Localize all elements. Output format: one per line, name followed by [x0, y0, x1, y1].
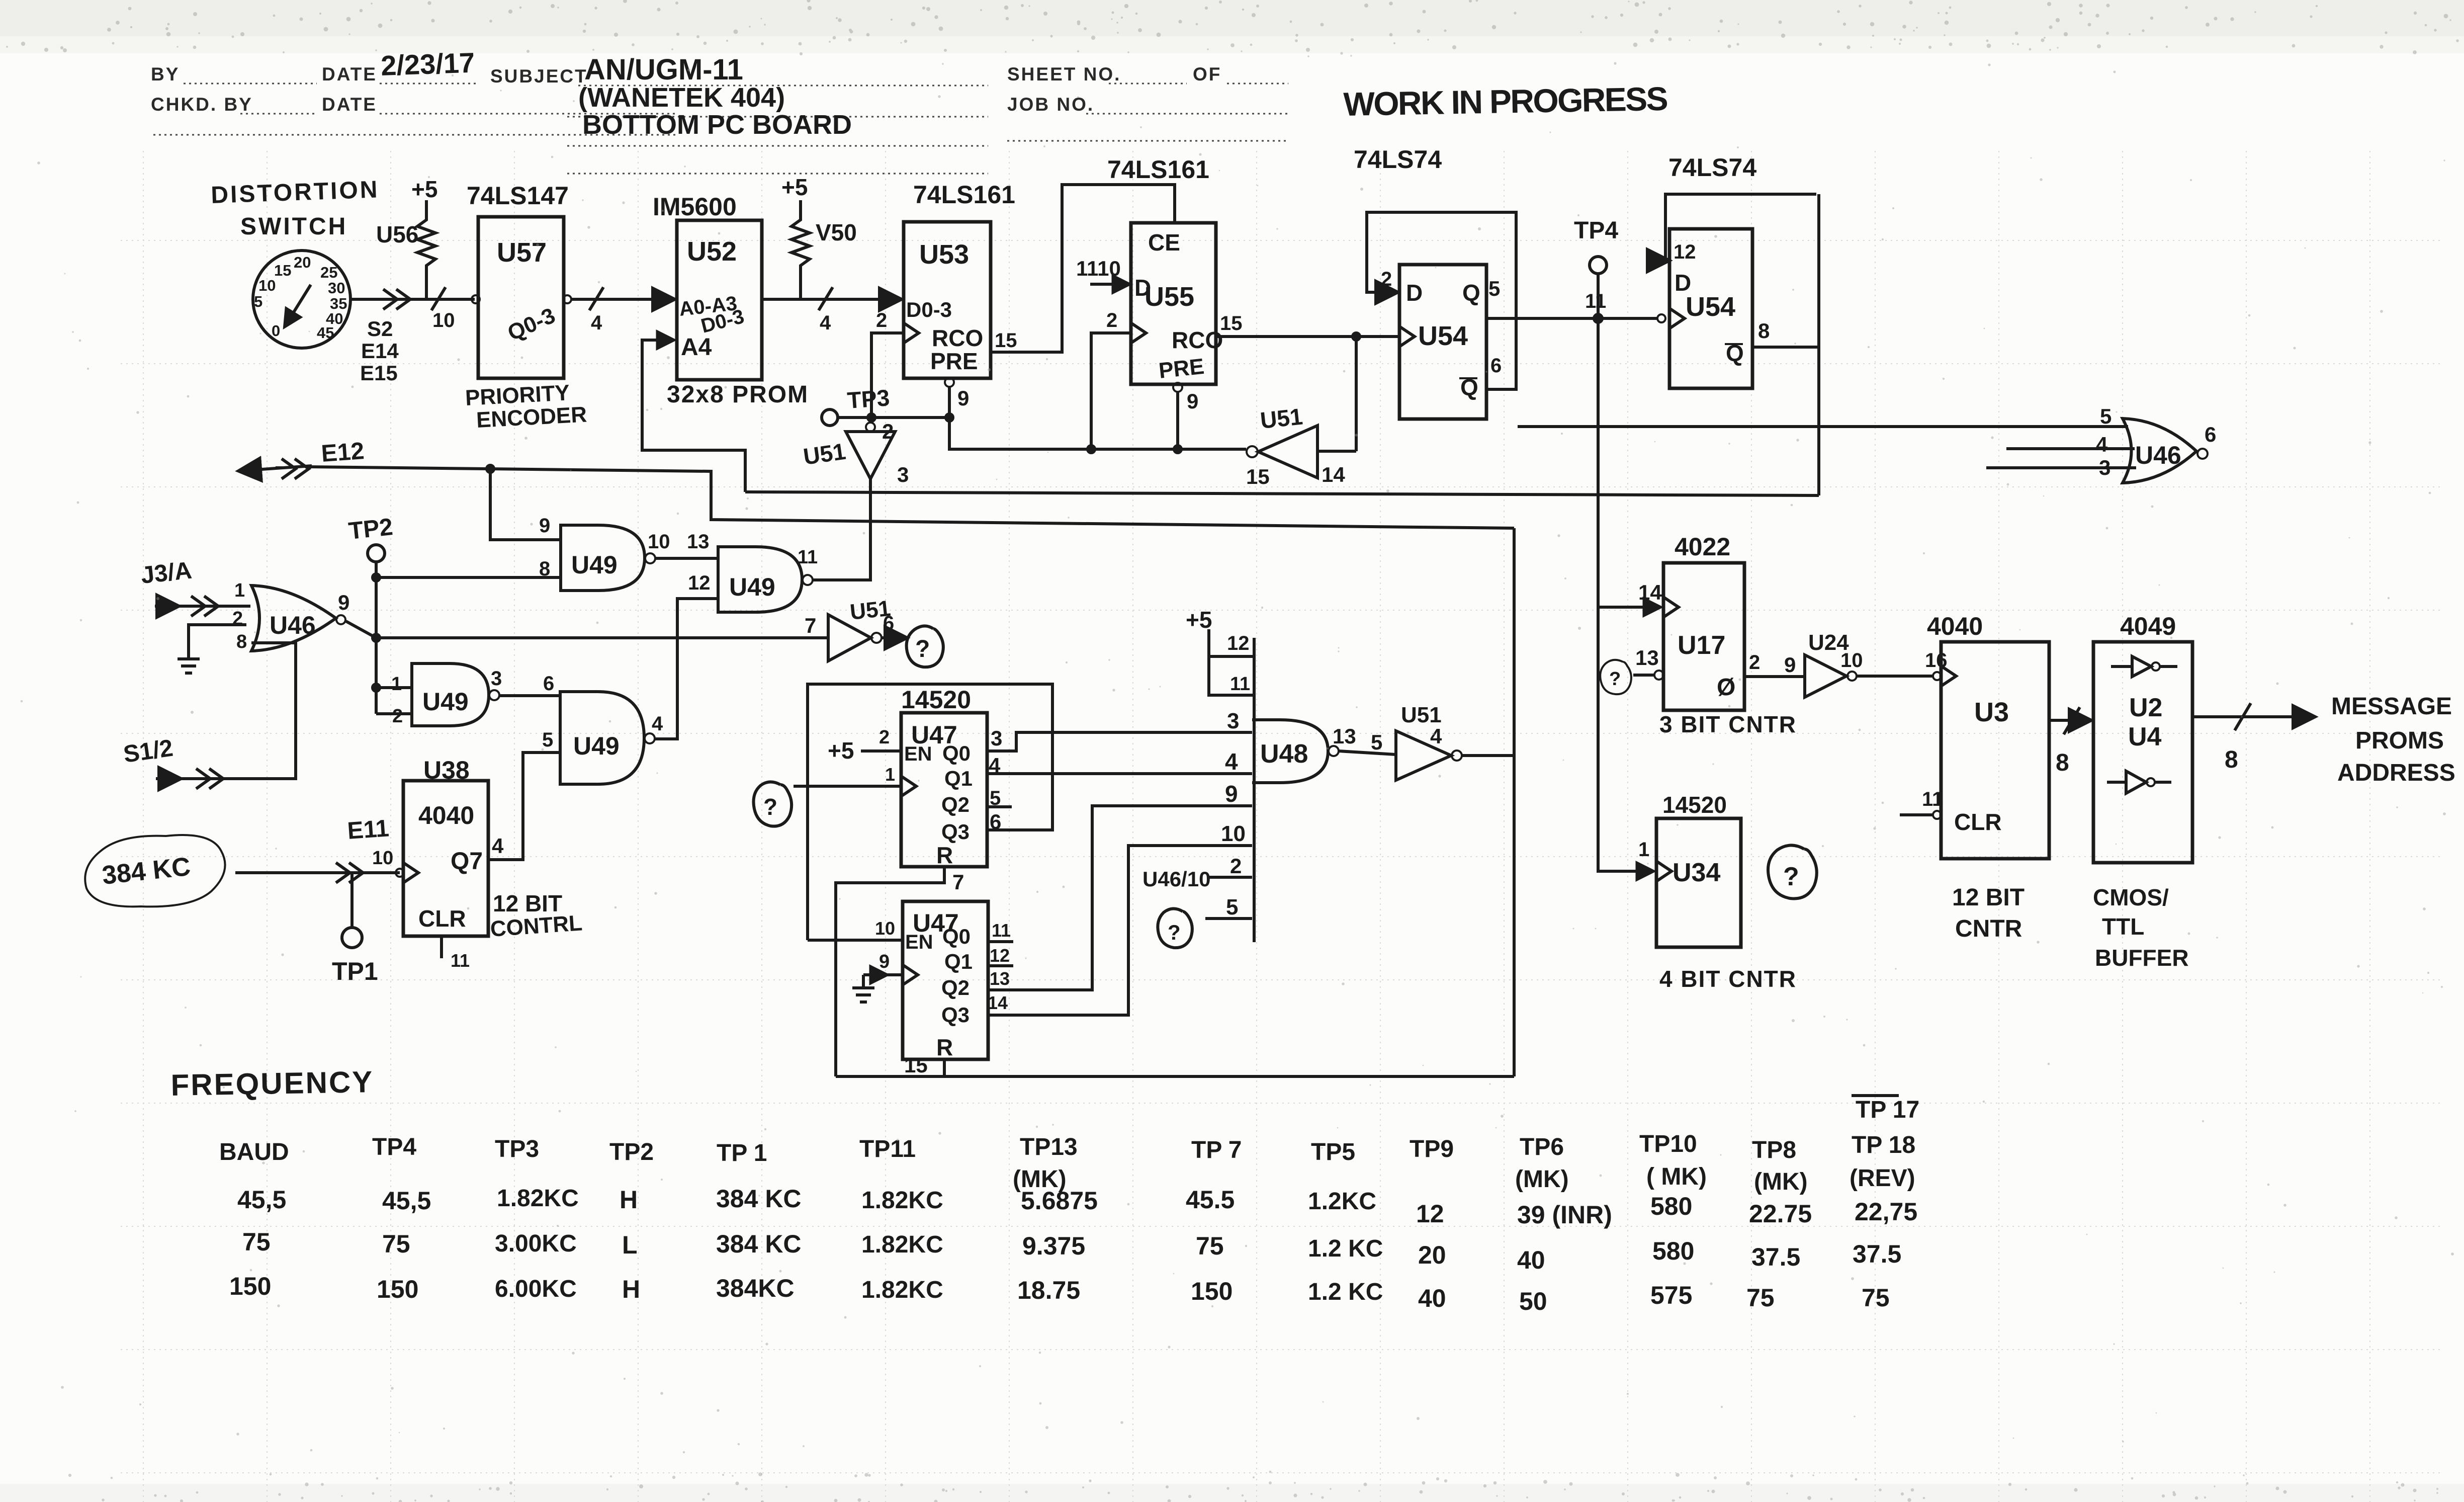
svg-text:12: 12 — [1227, 632, 1250, 654]
svg-text:U49: U49 — [571, 551, 618, 579]
svg-text:U52: U52 — [687, 236, 737, 267]
U38 CLR pin11 stub — [442, 936, 470, 971]
svg-text:(REV): (REV) — [1850, 1165, 1915, 1192]
svg-text:75: 75 — [1862, 1284, 1890, 1312]
svg-text:5: 5 — [1488, 277, 1500, 300]
nand U49d — [542, 692, 663, 784]
U47b Q0 pin11 stub — [988, 940, 1013, 943]
svg-text:+5: +5 — [1186, 607, 1212, 633]
svg-text:3: 3 — [897, 463, 909, 486]
wire big enable rectangle — [808, 684, 1052, 940]
svg-text:384 KC: 384 KC — [716, 1185, 802, 1213]
svg-text:Q: Q — [1462, 280, 1480, 306]
svg-text:9: 9 — [1187, 389, 1198, 413]
wire U3 to U2/U4 bus — [2049, 707, 2089, 734]
wire U47b Q2 pin13 to U48 pin9 — [988, 806, 1252, 990]
svg-text:14520: 14520 — [1662, 792, 1727, 818]
resistor U56 — [376, 200, 435, 299]
wire U52 to U53 — [762, 287, 900, 310]
wire U47a Q1 pin4 to U48 — [987, 772, 1252, 775]
svg-text:U55: U55 — [1145, 282, 1194, 312]
svg-text:CMOS/: CMOS/ — [2093, 884, 2169, 910]
svg-text:PRE: PRE — [1158, 354, 1205, 383]
buffer U51c — [828, 596, 905, 661]
svg-text:L: L — [622, 1231, 638, 1259]
svg-text:45.5: 45.5 — [1186, 1186, 1235, 1214]
U17 pin13 input with query — [1600, 646, 1663, 694]
wire 1110 into U55 D — [1076, 257, 1128, 284]
svg-text:U17: U17 — [1678, 631, 1725, 660]
svg-text:CLR: CLR — [1954, 809, 2002, 835]
svg-text:5: 5 — [1371, 730, 1382, 754]
svg-text:U48: U48 — [1260, 739, 1308, 769]
svg-text:TP5: TP5 — [1311, 1139, 1355, 1165]
svg-text:12: 12 — [1416, 1200, 1444, 1228]
svg-text:150: 150 — [377, 1275, 418, 1303]
svg-text:74LS147: 74LS147 — [467, 182, 569, 210]
node S1/2 input arrow to U46a pin8 — [122, 631, 296, 789]
svg-text:40: 40 — [1517, 1246, 1545, 1274]
svg-text:37.5: 37.5 — [1751, 1243, 1800, 1271]
svg-text:10: 10 — [1221, 821, 1246, 846]
svg-text:150: 150 — [1191, 1277, 1233, 1305]
svg-text:12: 12 — [990, 945, 1010, 966]
svg-text:6: 6 — [1490, 355, 1502, 377]
svg-text:3: 3 — [1227, 709, 1239, 733]
wire: switch to U57 — [350, 287, 475, 310]
svg-text:TP1: TP1 — [332, 957, 378, 985]
svg-text:U54: U54 — [1418, 321, 1468, 351]
wire into U46b pin4 — [2006, 447, 2135, 450]
svg-text:+5: +5 — [828, 737, 854, 764]
svg-text:Q3: Q3 — [941, 1003, 970, 1027]
and-gate U48 — [1252, 720, 1356, 783]
svg-text:9: 9 — [539, 515, 550, 537]
+5 into U47a EN — [828, 727, 901, 785]
distortion switch label — [211, 176, 380, 240]
svg-text:10: 10 — [372, 848, 393, 869]
svg-text:8: 8 — [236, 631, 247, 652]
svg-text:1: 1 — [1638, 839, 1649, 861]
svg-text:13: 13 — [687, 531, 710, 553]
svg-text:4040: 4040 — [418, 801, 474, 829]
svg-text:575: 575 — [1650, 1281, 1692, 1309]
svg-text:11: 11 — [992, 920, 1011, 941]
svg-text:TP4: TP4 — [1574, 217, 1618, 244]
svg-text:U49: U49 — [729, 573, 775, 601]
svg-text:10: 10 — [432, 309, 455, 331]
svg-text:SWITCH: SWITCH — [240, 213, 347, 240]
svg-text:13: 13 — [990, 968, 1010, 989]
svg-text:?: ? — [1168, 921, 1181, 944]
svg-text:15: 15 — [274, 262, 291, 279]
U47b Q1 pin12 stub — [988, 964, 1013, 967]
wire TP4 vertical down to U17 and U34 — [1598, 274, 1659, 871]
IC U47b 14520 — [903, 901, 988, 1060]
svg-text:2/23/17: 2/23/17 — [380, 47, 475, 81]
svg-text:4040: 4040 — [1927, 612, 1983, 640]
svg-text:BOTTOM PC BOARD: BOTTOM PC BOARD — [582, 110, 852, 140]
svg-text:3: 3 — [491, 667, 502, 690]
svg-text:3 BIT CNTR: 3 BIT CNTR — [1659, 711, 1797, 737]
wire U2/U4 output bus — [2192, 703, 2313, 730]
U53 PRE pin9 — [945, 378, 969, 416]
U3 CLR pin11 stub — [1900, 788, 1943, 819]
svg-text:(WANETEK 404): (WANETEK 404) — [578, 82, 785, 113]
svg-text:11: 11 — [451, 950, 470, 971]
svg-text:OF: OF — [1193, 64, 1221, 85]
wire TP2 net into U49c pins — [376, 688, 412, 714]
wire U48 out to U51d — [1339, 751, 1396, 755]
svg-text:22.75: 22.75 — [1749, 1200, 1812, 1228]
wire A4 long feedback run — [745, 492, 1819, 495]
IC U53 74LS161 — [904, 181, 1015, 378]
svg-text:8: 8 — [1758, 319, 1770, 343]
svg-text:14: 14 — [1638, 580, 1662, 604]
svg-text:0: 0 — [272, 322, 280, 340]
wire U53 RCO to U55 CE — [991, 185, 1175, 352]
wire query to U47a clock — [794, 785, 900, 788]
svg-text:14520: 14520 — [901, 686, 971, 714]
wire main feedback vertical — [1513, 528, 1516, 1076]
svg-text:BAUD: BAUD — [219, 1139, 289, 1165]
svg-text:14: 14 — [1322, 463, 1345, 486]
svg-text:4: 4 — [1430, 724, 1442, 748]
svg-text:TP10: TP10 — [1639, 1131, 1697, 1157]
svg-text:1.82KC: 1.82KC — [861, 1277, 943, 1303]
svg-text:6: 6 — [2205, 423, 2216, 446]
svg-text:5: 5 — [542, 729, 553, 751]
svg-text:Q0: Q0 — [942, 741, 971, 765]
svg-text:2: 2 — [876, 309, 887, 331]
svg-text:75: 75 — [1746, 1284, 1775, 1312]
svg-text:Q1: Q1 — [944, 950, 973, 973]
svg-text:4: 4 — [820, 312, 831, 334]
svg-text:?: ? — [915, 636, 930, 662]
svg-text:1110: 1110 — [1076, 257, 1121, 280]
svg-text:V50: V50 — [816, 219, 857, 245]
svg-text:1.2 KC: 1.2 KC — [1308, 1279, 1383, 1305]
wire U55 clock pin2 — [1091, 333, 1130, 449]
U55 PRE pin9 — [1173, 383, 1198, 449]
svg-text:9: 9 — [957, 386, 969, 410]
svg-text:TP2: TP2 — [609, 1139, 654, 1165]
svg-text:U2: U2 — [2129, 693, 2162, 722]
svg-text:Ø: Ø — [1717, 674, 1735, 701]
svg-text:580: 580 — [1652, 1237, 1694, 1265]
svg-text:75: 75 — [382, 1230, 410, 1258]
svg-text:2: 2 — [1230, 854, 1242, 878]
svg-text:MESSAGE: MESSAGE — [2331, 693, 2452, 720]
svg-text:1: 1 — [391, 674, 402, 695]
svg-text:CNTR: CNTR — [1955, 915, 2022, 942]
IC U2/U4 4049 — [2093, 612, 2192, 863]
wire U46a output long to U51c — [346, 621, 827, 638]
svg-text:1: 1 — [234, 580, 245, 601]
svg-text:U34: U34 — [1673, 858, 1720, 887]
U47a Q2 pin5 stub — [987, 805, 1012, 808]
svg-text:4022: 4022 — [1675, 533, 1730, 561]
wire U47b R pin15 to bottom loop — [836, 1059, 1514, 1076]
svg-text:10: 10 — [258, 277, 276, 294]
svg-text:U51: U51 — [1401, 703, 1442, 727]
svg-text:U49: U49 — [573, 732, 620, 760]
wire U47b Q3 pin14 to U48 pin10 — [988, 846, 1252, 1015]
svg-text:37.5: 37.5 — [1853, 1240, 1901, 1268]
resistor V50 — [791, 200, 857, 298]
svg-text:SUBJECT: SUBJECT — [490, 66, 588, 87]
svg-text:5: 5 — [990, 787, 1001, 809]
svg-text:74LS161: 74LS161 — [1107, 155, 1209, 184]
wire U54a Q to U54b clock — [1486, 314, 1665, 322]
svg-text:TTL: TTL — [2102, 913, 2144, 940]
wire U24 to U3 clock — [1857, 672, 1941, 680]
node query circle near U34 — [1768, 845, 1817, 898]
svg-text:Q1: Q1 — [944, 767, 973, 790]
wire U54b loop pin12 D — [1665, 194, 1816, 261]
IC U47a 14520 — [901, 686, 987, 868]
svg-text:11: 11 — [798, 547, 818, 568]
svg-text:45,5: 45,5 — [237, 1186, 286, 1214]
svg-text:74LS74: 74LS74 — [1668, 153, 1756, 182]
svg-text:150: 150 — [229, 1272, 271, 1300]
svg-text:U57: U57 — [497, 237, 547, 268]
node query circle before U47a clock — [754, 782, 792, 826]
wire U38 Q7 to U49d pin5 — [488, 753, 560, 860]
svg-text:TP 7: TP 7 — [1191, 1137, 1242, 1163]
IC U3 4040 — [1927, 612, 2049, 859]
svg-text:H: H — [622, 1275, 640, 1303]
svg-text:S2: S2 — [367, 317, 393, 341]
IC U52 IM5600 — [653, 193, 809, 408]
test point TP3 — [822, 384, 891, 426]
svg-text:25: 25 — [320, 264, 337, 281]
svg-text:1.2KC: 1.2KC — [1308, 1188, 1376, 1215]
svg-text:AN/UGM-11: AN/UGM-11 — [584, 53, 743, 86]
svg-text:22,75: 22,75 — [1855, 1198, 1917, 1226]
svg-text:Q7: Q7 — [451, 848, 483, 875]
wire U55 RCO to U54 clock — [1216, 333, 1398, 451]
svg-text:14: 14 — [988, 992, 1008, 1013]
svg-text:5: 5 — [1226, 895, 1238, 920]
svg-text:( MK): ( MK) — [1646, 1163, 1707, 1190]
node labels S2 E14 E15 — [360, 317, 399, 385]
flip-flop U54a 74LS74 — [1354, 145, 1486, 419]
svg-text:TP3: TP3 — [495, 1136, 539, 1162]
svg-text:U49: U49 — [422, 688, 469, 716]
svg-text:9: 9 — [1784, 653, 1796, 677]
svg-text:384KC: 384KC — [716, 1274, 795, 1302]
svg-text:CLR: CLR — [418, 905, 466, 932]
svg-text:U3: U3 — [1974, 697, 2009, 727]
svg-text:TP3: TP3 — [846, 384, 891, 413]
svg-text:E12: E12 — [320, 438, 365, 467]
svg-text:U53: U53 — [919, 239, 969, 270]
svg-text:BUFFER: BUFFER — [2095, 945, 2189, 971]
svg-text:H: H — [620, 1186, 638, 1214]
svg-text:9: 9 — [338, 591, 349, 614]
svg-text:J3/A: J3/A — [140, 557, 193, 589]
svg-text:13: 13 — [1333, 724, 1356, 748]
svg-text:6: 6 — [543, 673, 554, 695]
svg-text:?: ? — [1783, 862, 1799, 891]
svg-text:TP8: TP8 — [1752, 1137, 1796, 1163]
node E12 with arrow — [240, 438, 365, 479]
svg-text:U4: U4 — [2128, 722, 2162, 752]
svg-text:9: 9 — [1225, 781, 1238, 807]
svg-text:Q3: Q3 — [941, 820, 970, 844]
IC U17 4022 — [1638, 533, 1744, 710]
svg-text:SHEET NO.: SHEET NO. — [1007, 64, 1121, 85]
buffer U51d — [1396, 703, 1462, 780]
svg-text:1.82KC: 1.82KC — [861, 1231, 943, 1258]
svg-text:TP6: TP6 — [1520, 1134, 1564, 1160]
svg-text:5: 5 — [254, 293, 262, 310]
svg-text:45,5: 45,5 — [382, 1187, 431, 1215]
svg-text:(MK): (MK) — [1754, 1169, 1808, 1195]
IC U38 4040 — [403, 756, 488, 936]
node E11 arrow into U38 — [235, 815, 404, 883]
svg-text:WORK IN PROGRESS: WORK IN PROGRESS — [1343, 80, 1669, 123]
svg-text:12 BIT: 12 BIT — [1952, 884, 2025, 911]
wire TP2 vertical — [373, 562, 380, 714]
svg-text:4 BIT CNTR: 4 BIT CNTR — [1659, 966, 1797, 992]
ground into U47b clock pin9 — [852, 951, 902, 1002]
wire U47a Q3 pin6 up to big rect — [987, 817, 1052, 830]
test point TP1 — [332, 873, 378, 985]
svg-text:1.82KC: 1.82KC — [861, 1187, 943, 1214]
inverter U51b (points left) — [1246, 403, 1356, 488]
svg-text:TP2: TP2 — [347, 514, 394, 545]
svg-text:3.00KC: 3.00KC — [495, 1230, 577, 1257]
svg-text:1.2 KC: 1.2 KC — [1308, 1235, 1383, 1262]
wire U51d out to feedback vertical — [1462, 754, 1514, 757]
svg-text:3: 3 — [991, 726, 1002, 750]
svg-text:EN: EN — [904, 743, 932, 765]
svg-text:8: 8 — [2225, 746, 2238, 773]
svg-text:15: 15 — [1220, 312, 1243, 335]
svg-text:R: R — [936, 1034, 953, 1060]
svg-text:TP4: TP4 — [372, 1134, 416, 1160]
wire TP3 net — [838, 414, 1246, 453]
svg-text:75: 75 — [1196, 1232, 1224, 1260]
svg-text:15: 15 — [1246, 465, 1270, 488]
svg-text:+5: +5 — [781, 174, 808, 200]
svg-text:D0-3: D0-3 — [906, 298, 952, 321]
node MESSAGE PROMS ADDRESS — [2331, 693, 2455, 786]
svg-text:7: 7 — [805, 614, 816, 637]
svg-text:?: ? — [763, 794, 777, 820]
wire U57 to U52 — [563, 287, 673, 310]
svg-text:15: 15 — [995, 329, 1017, 352]
node query circle near U48 pin5 — [1158, 908, 1192, 948]
svg-text:9: 9 — [879, 951, 890, 972]
svg-text:2: 2 — [1749, 651, 1760, 674]
svg-text:RCO: RCO — [1172, 327, 1223, 353]
svg-text:4: 4 — [591, 312, 602, 334]
wire U54a feedback loop Qbar to D — [1367, 212, 1516, 389]
wire TP2 to U49a pin8 — [376, 576, 561, 579]
svg-text:U46: U46 — [270, 611, 316, 639]
svg-text:9.375: 9.375 — [1022, 1232, 1085, 1260]
svg-text:11: 11 — [1230, 674, 1250, 695]
svg-text:BY: BY — [151, 64, 180, 85]
svg-text:R: R — [936, 842, 953, 868]
wire U49d out up to U49b pin12 — [655, 599, 718, 739]
svg-text:11: 11 — [1585, 290, 1606, 312]
svg-text:4049: 4049 — [2120, 612, 2176, 640]
wire U49c out to U49d pin6 — [499, 694, 560, 697]
svg-text:PROMS: PROMS — [2355, 727, 2444, 754]
svg-text:TP 18: TP 18 — [1852, 1132, 1915, 1158]
svg-text:10: 10 — [648, 531, 670, 553]
svg-text:50: 50 — [1519, 1287, 1547, 1315]
svg-text:74LS74: 74LS74 — [1354, 145, 1442, 174]
wire U49a out to U49b pin13 — [655, 557, 718, 560]
wire into U46b pin5 — [1518, 425, 2128, 428]
inverter U51a (points down) — [802, 420, 909, 579]
svg-text:TP13: TP13 — [1020, 1134, 1078, 1160]
svg-text:A4: A4 — [681, 334, 712, 361]
IC U55 74LS161 — [1107, 155, 1223, 384]
svg-text:5.6875: 5.6875 — [1021, 1187, 1098, 1215]
svg-text:6.00KC: 6.00KC — [495, 1276, 577, 1302]
svg-text:20: 20 — [1418, 1241, 1446, 1269]
svg-text:1: 1 — [885, 764, 895, 785]
svg-text:PRE: PRE — [930, 348, 978, 374]
svg-text:4: 4 — [1225, 748, 1238, 775]
svg-text:2: 2 — [1381, 268, 1392, 290]
wire E12 branch to U49a pin9 — [490, 469, 561, 540]
svg-text:75: 75 — [242, 1228, 271, 1256]
ground for U46a pin2 — [178, 608, 246, 673]
svg-text:DATE: DATE — [322, 64, 377, 85]
or-gate U46b — [2096, 404, 2216, 483]
svg-text:8: 8 — [539, 558, 550, 580]
svg-text:+5: +5 — [411, 176, 437, 202]
svg-text:6: 6 — [990, 810, 1001, 833]
svg-text:TP9: TP9 — [1410, 1136, 1454, 1162]
wire U47a Q0 pin3 to U48 — [987, 732, 1252, 751]
wire E12 long run to U48 net — [309, 465, 1514, 528]
svg-text:5: 5 — [2100, 404, 2111, 428]
svg-text:12: 12 — [688, 572, 711, 594]
svg-text:2: 2 — [1106, 309, 1117, 331]
svg-text:CHKD. BY: CHKD. BY — [151, 94, 253, 115]
svg-text:4: 4 — [989, 754, 1001, 777]
svg-text:12: 12 — [1674, 241, 1696, 263]
svg-text:U46: U46 — [2135, 441, 2181, 469]
svg-text:CE: CE — [1148, 229, 1180, 256]
wire U53 clock pin2 — [871, 333, 903, 416]
svg-text:8: 8 — [2056, 749, 2069, 776]
svg-text:Q2: Q2 — [941, 976, 970, 999]
svg-text:4: 4 — [652, 713, 663, 735]
or-gate U46a — [251, 586, 349, 651]
svg-text:1.82KC: 1.82KC — [497, 1185, 579, 1212]
switch S2 rotary dial — [253, 251, 350, 348]
svg-text:13: 13 — [1635, 646, 1659, 670]
svg-text:D: D — [1406, 280, 1423, 306]
svg-text:E11: E11 — [346, 815, 390, 845]
nand U49a — [539, 515, 655, 591]
wire U54b Qbar to vertical — [1752, 194, 1819, 495]
U48 input bus bar — [1205, 629, 1254, 942]
wire U47a R pin7 to left loop — [836, 867, 944, 1076]
svg-text:2: 2 — [392, 706, 403, 727]
svg-text:U46/10: U46/10 — [1142, 867, 1210, 891]
svg-text:10: 10 — [1840, 649, 1863, 672]
